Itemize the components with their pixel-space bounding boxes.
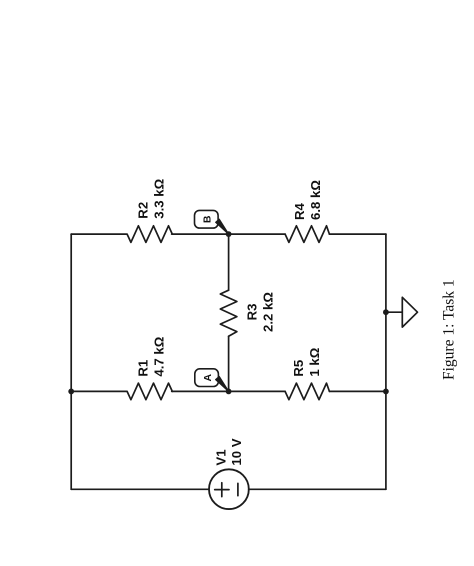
resistor R1	[127, 383, 172, 400]
node B junction dot	[226, 231, 232, 237]
svg-text:A: A	[202, 373, 214, 381]
svg-text:V110 V: V110 V	[214, 438, 245, 465]
wire top-left vertical (left rail)	[70, 234, 72, 489]
V1 plus sign	[215, 483, 229, 497]
svg-text:R14.7 kΩ: R14.7 kΩ	[135, 336, 166, 376]
wire bottom row right	[249, 488, 386, 490]
svg-text:R51 kΩ: R51 kΩ	[291, 347, 322, 376]
V1 minus bar	[237, 483, 239, 495]
junction dot left rail / R1 row	[68, 389, 74, 395]
node A label box	[195, 369, 229, 392]
wire top row R4 to right rail	[329, 233, 386, 235]
node B label box	[195, 210, 229, 234]
wire R1 to node A	[172, 390, 285, 392]
wire output stub	[386, 311, 402, 313]
svg-text:B: B	[202, 215, 214, 223]
svg-text:R46.8 kΩ: R46.8 kΩ	[292, 180, 323, 220]
wire bottom row left	[71, 488, 209, 490]
wire top row R2 to node B	[172, 233, 285, 235]
voltage source V1	[209, 469, 249, 509]
wire middle row left lead	[71, 390, 126, 392]
wire R5 to right rail	[329, 390, 386, 392]
svg-text:R23.3 kΩ: R23.3 kΩ	[135, 178, 166, 218]
svg-text:R32.2 kΩ: R32.2 kΩ	[245, 292, 276, 332]
wire R3 to node A	[228, 336, 230, 391]
wire R3 branch from node B	[228, 234, 230, 290]
node A junction dot	[226, 389, 232, 395]
resistor R5	[285, 383, 329, 400]
junction dot right rail / output	[383, 309, 389, 315]
junction dot right rail / R5 row	[383, 389, 389, 395]
wire right rail	[385, 234, 387, 489]
svg-text:Figure 1: Task 1: Figure 1: Task 1	[441, 279, 458, 380]
resistor R2	[127, 226, 172, 243]
wire top row left lead	[71, 233, 126, 235]
resistor R4	[285, 226, 329, 243]
resistor R3	[220, 290, 237, 336]
output port triangle	[402, 297, 417, 327]
